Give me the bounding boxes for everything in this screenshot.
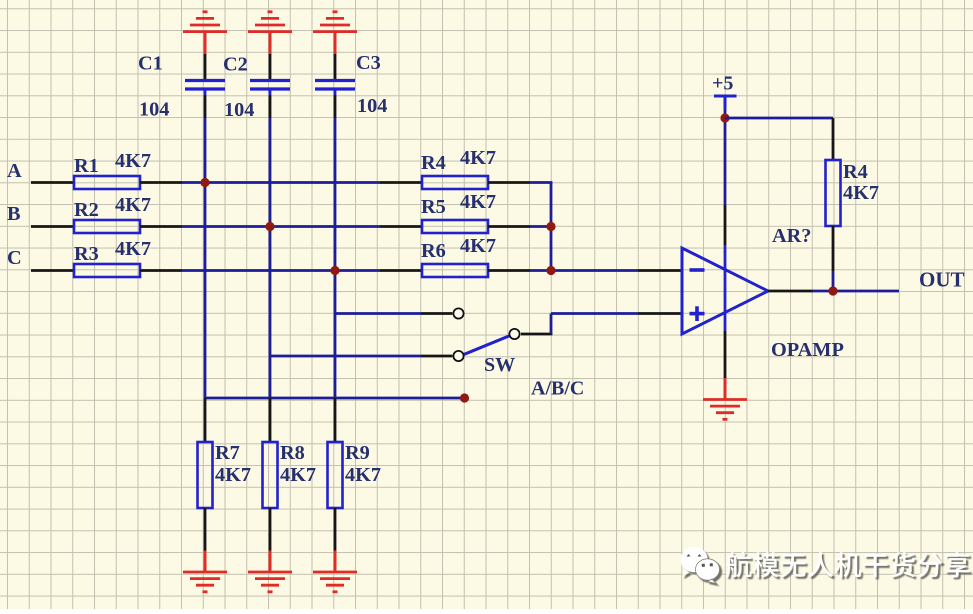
svg-text:4K7: 4K7	[460, 147, 496, 169]
svg-text:4K7: 4K7	[115, 238, 151, 260]
resistor R9	[328, 442, 382, 508]
resistor R4	[421, 147, 496, 189]
power +5	[712, 73, 737, 111]
watermark text	[726, 552, 970, 578]
junction collector C	[546, 266, 555, 275]
op-amp AR? OPAMP	[682, 225, 844, 361]
capacitor C3	[315, 52, 387, 117]
switch contact throw 2	[453, 351, 463, 361]
wire C2 to switch throw 2	[270, 355, 452, 358]
svg-text:4K7: 4K7	[215, 464, 251, 486]
svg-text:4K7: 4K7	[115, 194, 151, 216]
capacitor C2	[223, 54, 290, 122]
resistor R1	[74, 150, 151, 189]
wire R8 to ground	[269, 508, 272, 551]
junction C/C3	[330, 266, 339, 275]
wire collector vertical	[550, 183, 553, 271]
svg-text:A/B/C: A/B/C	[531, 378, 584, 400]
wire op-amp output	[768, 290, 899, 293]
resistor R5	[421, 191, 496, 233]
svg-text:R8: R8	[280, 442, 305, 464]
wire R1 right pin	[140, 181, 182, 184]
svg-text:R9: R9	[345, 442, 370, 464]
ground (top, above C2)	[248, 12, 292, 54]
wire R4 left pin	[380, 181, 422, 184]
svg-text:OPAMP: OPAMP	[771, 339, 844, 361]
svg-text:C: C	[7, 247, 22, 269]
wire row B navy	[182, 225, 380, 228]
svg-text:4K7: 4K7	[115, 150, 151, 172]
wire R6 right pin	[488, 269, 530, 272]
resistor R4 (feedback)	[826, 160, 880, 226]
ground (top, above C1)	[183, 12, 227, 54]
ground (below R7)	[183, 551, 227, 592]
resistor R7	[198, 442, 252, 508]
svg-text:R4: R4	[421, 152, 446, 174]
wire R6 to collector	[530, 269, 552, 272]
wire op-amp to ground	[724, 331, 727, 378]
capacitor C1	[138, 53, 225, 121]
wire bottom bus horizontal	[205, 397, 465, 400]
svg-text:R1: R1	[74, 155, 99, 177]
junction B/C2	[265, 222, 274, 231]
wire feedback to output	[832, 226, 835, 291]
wire bus to R8	[269, 398, 272, 442]
junction bottom bus end	[460, 393, 469, 402]
wire C3 to switch throw 1	[335, 312, 452, 315]
junction output	[828, 286, 837, 295]
wire row C navy	[182, 269, 380, 272]
wire C3 bus vertical	[334, 95, 337, 398]
switch contact throw 1	[453, 308, 463, 318]
wire bus to R7	[204, 398, 207, 442]
junction collector B	[546, 222, 555, 231]
wire +5 to feedback	[725, 118, 833, 160]
junction +5	[720, 113, 729, 122]
svg-text:+5: +5	[712, 73, 733, 95]
wire junction to op-amp power pin	[724, 118, 727, 245]
wire R5 left pin	[380, 225, 422, 228]
resistor R8	[263, 442, 317, 508]
wire R7 to ground	[204, 508, 207, 551]
resistor R6	[421, 235, 496, 277]
wire ground to C1	[204, 54, 207, 80]
svg-text:SW: SW	[484, 354, 515, 376]
wire R5 right pin	[488, 225, 530, 228]
svg-text:R5: R5	[421, 196, 446, 218]
wire to op-amp inverting input	[551, 269, 682, 272]
svg-text:R6: R6	[421, 240, 446, 262]
svg-text:C3: C3	[356, 52, 381, 74]
junction A/C1	[200, 178, 209, 187]
svg-text:104: 104	[224, 99, 254, 121]
wire input R1 left pin	[31, 181, 74, 184]
wire row A navy	[182, 181, 380, 184]
resistor R3	[74, 238, 151, 277]
wire C1 bus vertical	[204, 95, 207, 398]
wire R5 to collector	[530, 225, 552, 228]
svg-text:R2: R2	[74, 199, 99, 221]
wire R3 right pin	[140, 269, 182, 272]
svg-text:4K7: 4K7	[460, 235, 496, 257]
wire bus to R9	[334, 398, 337, 442]
svg-text:4K7: 4K7	[843, 182, 879, 204]
svg-text:4K7: 4K7	[345, 464, 381, 486]
wire C2 bus vertical	[269, 95, 272, 398]
svg-text:R3: R3	[74, 243, 99, 265]
svg-text:R4: R4	[843, 161, 868, 183]
ground (top, above C3)	[313, 12, 357, 54]
svg-text:4K7: 4K7	[280, 464, 316, 486]
resistor R2	[74, 194, 151, 233]
svg-text:A: A	[7, 160, 22, 182]
svg-text:C1: C1	[138, 53, 163, 75]
svg-text:R7: R7	[215, 442, 240, 464]
svg-text:B: B	[7, 203, 21, 225]
wire R6 left pin	[380, 269, 422, 272]
svg-text:104: 104	[357, 95, 387, 117]
wire R4 to collector	[530, 181, 552, 184]
switch pole contact	[509, 329, 519, 339]
svg-text:4K7: 4K7	[460, 191, 496, 213]
svg-text:AR?: AR?	[772, 225, 811, 247]
ground (below R9)	[313, 551, 357, 592]
wire R9 to ground	[334, 508, 337, 551]
wire R2 right pin	[140, 225, 182, 228]
ground (below op-amp)	[703, 378, 747, 419]
wire +5 to junction	[724, 110, 727, 118]
watermark wechat logo	[681, 547, 720, 584]
svg-text:104: 104	[139, 99, 169, 121]
wire input R3 left pin	[31, 269, 74, 272]
wire R4 right pin	[488, 181, 530, 184]
wire ground to C3	[334, 54, 337, 80]
switch SW arm	[463, 336, 510, 355]
wire input R2 left pin	[31, 225, 74, 228]
ground (below R8)	[248, 551, 292, 592]
wire ground to C2	[269, 54, 272, 80]
svg-text:C2: C2	[223, 54, 248, 76]
svg-text:OUT: OUT	[919, 268, 965, 292]
wire pole to op-amp non-inverting input	[521, 314, 682, 335]
